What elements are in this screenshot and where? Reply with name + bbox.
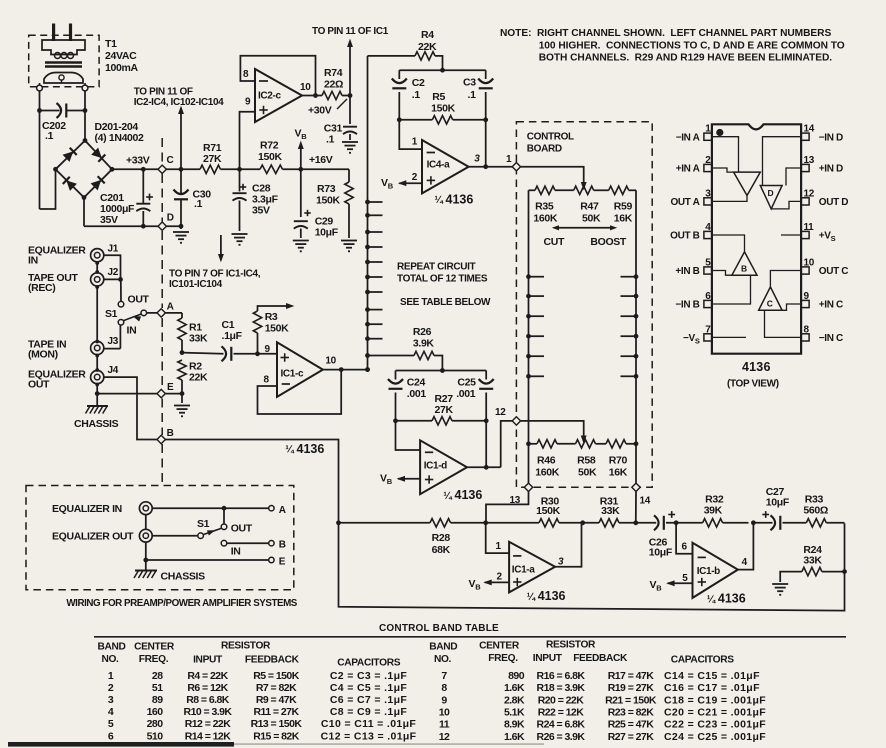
svg-text:R22 = 12K: R22 = 12K <box>538 706 585 718</box>
svg-text:8: 8 <box>264 375 270 386</box>
svg-text:C2: C2 <box>412 77 425 89</box>
svg-text:.1: .1 <box>326 134 335 146</box>
svg-text:10: 10 <box>439 706 450 718</box>
svg-text:R18 = 3.9K: R18 = 3.9K <box>537 682 586 694</box>
svg-text:R24 = 6.8K: R24 = 6.8K <box>537 719 586 731</box>
svg-text:.1: .1 <box>194 198 203 210</box>
svg-text:C18 = C19 = .001μF: C18 = C19 = .001μF <box>664 694 766 706</box>
svg-text:R17 = 47K: R17 = 47K <box>608 670 655 682</box>
svg-text:S1: S1 <box>197 518 210 530</box>
svg-text:C6 = C7 = .1μF: C6 = C7 = .1μF <box>330 694 408 706</box>
svg-text:35V: 35V <box>100 214 118 226</box>
svg-text:R35: R35 <box>535 201 554 213</box>
svg-text:1: 1 <box>108 670 114 682</box>
svg-text:4: 4 <box>742 557 748 568</box>
svg-text:BOOST: BOOST <box>590 236 627 248</box>
svg-text:160K: 160K <box>533 213 557 225</box>
svg-text:EQUALIZER OUT: EQUALIZER OUT <box>52 531 134 543</box>
svg-text:R28: R28 <box>432 532 451 544</box>
svg-text:B: B <box>167 428 174 439</box>
svg-text:C16 = C17 = .01μF: C16 = C17 = .01μF <box>664 682 760 694</box>
svg-text:16K: 16K <box>609 467 628 479</box>
svg-text:TO PIN 11 OF IC1: TO PIN 11 OF IC1 <box>312 26 389 37</box>
svg-text:27K: 27K <box>435 404 454 416</box>
svg-text:REPEAT CIRCUIT: REPEAT CIRCUIT <box>397 262 475 273</box>
svg-text:12: 12 <box>495 407 506 418</box>
svg-text:A: A <box>279 505 286 516</box>
svg-text:7: 7 <box>441 670 447 682</box>
svg-text:R6 = 12K: R6 = 12K <box>187 682 228 694</box>
svg-text:C4 = C5 = .1μF: C4 = C5 = .1μF <box>330 682 408 694</box>
svg-text:RESISTOR: RESISTOR <box>546 640 596 651</box>
svg-text:BAND: BAND <box>429 642 457 653</box>
svg-text:4136: 4136 <box>446 192 474 206</box>
svg-text:R13 = 150K: R13 = 150K <box>251 718 303 730</box>
svg-text:68K: 68K <box>432 544 451 556</box>
svg-text:R70: R70 <box>609 455 628 467</box>
svg-text:22Ω: 22Ω <box>324 79 343 91</box>
svg-text:24VAC: 24VAC <box>105 50 137 62</box>
svg-text:NO.: NO. <box>434 654 452 665</box>
svg-text:R14 = 12K: R14 = 12K <box>185 730 232 742</box>
svg-text:1: 1 <box>506 154 512 165</box>
svg-text:CENTER: CENTER <box>479 641 520 652</box>
svg-text:OUT: OUT <box>231 523 253 535</box>
svg-text:R11 = 27K: R11 = 27K <box>254 706 300 718</box>
svg-text:R12 = 22K: R12 = 22K <box>185 718 232 730</box>
svg-text:.1: .1 <box>412 89 421 101</box>
svg-text:4136: 4136 <box>455 488 483 502</box>
svg-text:J4: J4 <box>108 365 119 376</box>
svg-text:14: 14 <box>804 124 815 135</box>
svg-text:10: 10 <box>300 82 311 93</box>
svg-text:4: 4 <box>108 706 114 718</box>
svg-text:R5 = 150K: R5 = 150K <box>253 670 300 682</box>
svg-text:510: 510 <box>147 730 164 742</box>
svg-text:10: 10 <box>804 258 815 269</box>
svg-text:IC2-c: IC2-c <box>258 91 281 102</box>
svg-text:(REC): (REC) <box>28 282 55 294</box>
svg-text:2: 2 <box>705 155 711 166</box>
svg-text:TO PIN 11 OF: TO PIN 11 OF <box>134 87 193 98</box>
svg-text:C12 = C13 = .01μF: C12 = C13 = .01μF <box>321 730 417 742</box>
svg-text:6: 6 <box>682 542 688 553</box>
svg-text:FREQ.: FREQ. <box>488 653 518 664</box>
svg-text:EQUALIZER IN: EQUALIZER IN <box>52 503 122 515</box>
svg-text:IN: IN <box>127 325 137 337</box>
svg-text:CAPACITORS: CAPACITORS <box>337 657 400 668</box>
svg-text:−IN A: −IN A <box>676 132 700 143</box>
svg-text:4136: 4136 <box>718 592 746 606</box>
svg-text:R15 = 82K: R15 = 82K <box>253 730 300 742</box>
svg-text:IN: IN <box>28 255 38 267</box>
svg-text:160: 160 <box>147 706 164 718</box>
svg-text:22K: 22K <box>189 372 208 384</box>
svg-text:CHASSIS: CHASSIS <box>74 418 119 430</box>
svg-text:¼: ¼ <box>707 594 716 605</box>
svg-text:R20 = 22K: R20 = 22K <box>538 694 585 706</box>
svg-text:2: 2 <box>497 572 503 583</box>
svg-text:CUT: CUT <box>544 236 565 248</box>
svg-text:−IN C: −IN C <box>819 333 843 344</box>
svg-text:8: 8 <box>804 324 810 335</box>
svg-text:RESISTOR: RESISTOR <box>221 641 271 652</box>
svg-text:R21 = 150K: R21 = 150K <box>605 694 657 706</box>
svg-text:IC1-a: IC1-a <box>512 565 535 576</box>
svg-text:150K: 150K <box>316 195 340 207</box>
svg-text:2.8K: 2.8K <box>504 694 525 706</box>
svg-text:CENTER: CENTER <box>134 642 175 653</box>
svg-text:A: A <box>167 302 174 313</box>
svg-text:3: 3 <box>474 154 480 165</box>
svg-text:IC1-b: IC1-b <box>697 566 720 577</box>
svg-text:8: 8 <box>243 69 249 80</box>
svg-text:C: C <box>167 155 174 166</box>
svg-text:R7 = 82K: R7 = 82K <box>256 682 297 694</box>
svg-text:R5: R5 <box>432 91 445 103</box>
svg-text:B: B <box>741 264 747 274</box>
svg-text:R74: R74 <box>324 67 343 79</box>
svg-text:SEE TABLE BELOW: SEE TABLE BELOW <box>400 297 491 308</box>
svg-text:CHASSIS: CHASSIS <box>161 571 206 583</box>
svg-text:1: 1 <box>496 541 502 552</box>
svg-text:R58: R58 <box>577 455 596 467</box>
svg-text:(MON): (MON) <box>28 349 58 361</box>
svg-text:C20 = C21 = .001μF: C20 = C21 = .001μF <box>664 706 766 718</box>
svg-text:8: 8 <box>441 682 447 694</box>
svg-text:OUT: OUT <box>28 379 50 391</box>
svg-text:C24: C24 <box>407 377 426 389</box>
svg-text:27K: 27K <box>203 153 222 165</box>
svg-text:C14 = C15 = .01μF: C14 = C15 = .01μF <box>664 670 760 682</box>
svg-text:50K: 50K <box>582 213 601 225</box>
svg-text:.001: .001 <box>456 388 476 400</box>
svg-text:3: 3 <box>705 188 711 199</box>
svg-text:OUT B: OUT B <box>670 231 699 242</box>
svg-text:R73: R73 <box>317 183 336 195</box>
svg-text:150K: 150K <box>265 323 289 335</box>
svg-text:TOTAL OF 12 TIMES: TOTAL OF 12 TIMES <box>397 273 488 284</box>
svg-text:R19 = 27K: R19 = 27K <box>608 682 655 694</box>
svg-text:100mA: 100mA <box>105 62 138 74</box>
svg-text:IC2-IC4, IC102-IC104: IC2-IC4, IC102-IC104 <box>134 97 224 108</box>
svg-text:C10 = C11 = .01μF: C10 = C11 = .01μF <box>321 718 416 730</box>
svg-text:22K: 22K <box>418 41 437 53</box>
svg-text:C: C <box>767 299 773 309</box>
svg-text:C2 = C3 = .1μF: C2 = C3 = .1μF <box>330 670 408 682</box>
svg-text:4136: 4136 <box>297 442 325 456</box>
svg-text:9: 9 <box>804 291 810 302</box>
svg-text:−IN D: −IN D <box>819 132 843 143</box>
svg-text:CONTROL BAND TABLE: CONTROL BAND TABLE <box>379 623 499 634</box>
svg-text:R23 = 82K: R23 = 82K <box>608 706 655 718</box>
svg-text:OUT A: OUT A <box>671 197 700 208</box>
svg-text:IC4-a: IC4-a <box>427 160 450 171</box>
svg-text:39K: 39K <box>704 505 723 517</box>
svg-text:D: D <box>768 188 774 198</box>
svg-text:6: 6 <box>705 291 711 302</box>
svg-text:8.9K: 8.9K <box>504 719 525 731</box>
svg-text:280: 280 <box>147 718 164 730</box>
svg-text:+33V: +33V <box>126 155 150 167</box>
svg-text:.1: .1 <box>468 89 477 101</box>
svg-text:INPUT: INPUT <box>533 653 563 664</box>
svg-text:R26: R26 <box>413 326 432 338</box>
svg-text:.1μF: .1μF <box>222 330 243 342</box>
svg-text:OUT C: OUT C <box>819 266 848 277</box>
svg-text:NO.: NO. <box>101 654 119 665</box>
svg-text:150K: 150K <box>258 151 282 163</box>
svg-text:C22 = C23 = .001μF: C22 = C23 = .001μF <box>664 719 766 731</box>
svg-text:R27 = 27K: R27 = 27K <box>608 731 655 743</box>
svg-text:BOTH CHANNELS. R29 AND R129 H: BOTH CHANNELS. R29 AND R129 HAVE BEEN EL… <box>539 53 833 64</box>
svg-text:+IN C: +IN C <box>819 300 843 311</box>
svg-text:CAPACITORS: CAPACITORS <box>671 654 734 665</box>
svg-text:R10 = 3.9K: R10 = 3.9K <box>184 706 233 718</box>
svg-text:+16V: +16V <box>309 154 333 166</box>
svg-text:B: B <box>279 540 286 551</box>
svg-text:10μF: 10μF <box>766 497 790 509</box>
svg-text:R25 = 47K: R25 = 47K <box>608 719 655 731</box>
svg-text:33K: 33K <box>601 505 620 517</box>
svg-text:R8 = 6.8K: R8 = 6.8K <box>186 694 230 706</box>
svg-text:+IN B: +IN B <box>675 266 699 277</box>
svg-text:+30V: +30V <box>308 105 332 117</box>
svg-text:3.9K: 3.9K <box>413 338 435 350</box>
svg-text:11: 11 <box>439 719 450 731</box>
svg-text:OUT D: OUT D <box>819 197 848 208</box>
svg-text:INPUT: INPUT <box>193 654 223 665</box>
svg-text:IN: IN <box>231 546 241 558</box>
svg-text:35V: 35V <box>252 205 270 217</box>
svg-text:9: 9 <box>441 694 447 706</box>
svg-text:4136: 4136 <box>538 589 566 603</box>
svg-text:150K: 150K <box>431 103 455 115</box>
svg-text:¼: ¼ <box>285 445 294 456</box>
svg-text:100 HIGHER. CONNECTIONS TO C,: 100 HIGHER. CONNECTIONS TO C, D AND E AR… <box>539 40 845 51</box>
svg-text:J2: J2 <box>108 267 119 278</box>
svg-text:89: 89 <box>152 694 163 706</box>
svg-text:FREQ.: FREQ. <box>139 654 169 665</box>
svg-text:2: 2 <box>412 172 418 183</box>
svg-text:150K: 150K <box>536 505 560 517</box>
svg-text:C8 = C9 = .1μF: C8 = C9 = .1μF <box>330 706 408 718</box>
svg-text:J3: J3 <box>108 336 119 347</box>
svg-text:33K: 33K <box>189 333 208 345</box>
svg-text:IC1-d: IC1-d <box>424 461 447 472</box>
svg-text:C25: C25 <box>457 377 476 389</box>
svg-text:T1: T1 <box>105 38 117 50</box>
svg-text:¼: ¼ <box>443 491 452 502</box>
svg-text:S1: S1 <box>105 308 118 320</box>
svg-text:12: 12 <box>804 188 815 199</box>
svg-text:51: 51 <box>152 682 163 694</box>
svg-text:33K: 33K <box>803 555 822 567</box>
svg-text:FEEDBACK: FEEDBACK <box>245 654 300 665</box>
svg-text:J1: J1 <box>108 244 119 255</box>
svg-text:10μF: 10μF <box>649 546 673 558</box>
svg-text:C3: C3 <box>463 77 476 89</box>
svg-text:R16 = 6.8K: R16 = 6.8K <box>537 670 586 682</box>
svg-text:BAND: BAND <box>97 642 125 653</box>
svg-text:¼: ¼ <box>435 195 444 206</box>
svg-text:R72: R72 <box>260 140 279 152</box>
svg-text:50K: 50K <box>578 467 597 479</box>
svg-text:+IN A: +IN A <box>676 164 700 175</box>
svg-text:R4 = 22K: R4 = 22K <box>187 670 228 682</box>
svg-text:9: 9 <box>265 344 271 355</box>
svg-text:R47: R47 <box>580 201 599 213</box>
svg-text:890: 890 <box>508 670 525 682</box>
svg-text:(4) 1N4002: (4) 1N4002 <box>95 132 145 144</box>
svg-text:4136: 4136 <box>742 360 771 374</box>
svg-text:2: 2 <box>108 682 114 694</box>
svg-text:1.6K: 1.6K <box>504 682 525 694</box>
svg-text:R46: R46 <box>537 455 556 467</box>
svg-text:11: 11 <box>804 222 815 233</box>
svg-text:1.6K: 1.6K <box>504 731 525 743</box>
svg-text:CONTROL: CONTROL <box>527 132 574 143</box>
svg-text:5.1K: 5.1K <box>504 706 525 718</box>
svg-text:6: 6 <box>108 730 114 742</box>
svg-text:5: 5 <box>682 573 688 584</box>
svg-text:10: 10 <box>325 356 336 367</box>
svg-text:(TOP VIEW): (TOP VIEW) <box>727 379 779 390</box>
svg-text:E: E <box>279 556 286 567</box>
svg-text:IC1-c: IC1-c <box>281 368 304 379</box>
svg-text:3: 3 <box>558 557 564 568</box>
svg-text:14: 14 <box>640 496 651 507</box>
svg-text:WIRING FOR PREAMP/POWER AMPLIF: WIRING FOR PREAMP/POWER AMPLIFIER SYSTEM… <box>66 598 297 609</box>
svg-text:R4: R4 <box>421 29 434 41</box>
svg-text:1: 1 <box>412 137 418 148</box>
svg-text:13: 13 <box>804 155 815 166</box>
svg-text:16K: 16K <box>614 213 633 225</box>
svg-text:9: 9 <box>245 97 251 108</box>
svg-text:BOARD: BOARD <box>527 144 562 155</box>
svg-text:E: E <box>167 382 174 393</box>
svg-text:1: 1 <box>705 124 711 135</box>
svg-text:TO PIN 7 OF IC1-IC4,: TO PIN 7 OF IC1-IC4, <box>169 269 261 280</box>
svg-text:5: 5 <box>108 718 114 730</box>
svg-text:R59: R59 <box>614 201 633 213</box>
svg-text:NOTE: RIGHT CHANNEL SHOWN. L: NOTE: RIGHT CHANNEL SHOWN. LEFT CHANNEL … <box>500 28 831 39</box>
svg-text:+IN D: +IN D <box>819 164 843 175</box>
svg-text:−IN B: −IN B <box>675 300 699 311</box>
svg-text:FEEDBACK: FEEDBACK <box>573 653 628 664</box>
svg-text:28: 28 <box>152 670 163 682</box>
svg-text:R9 = 47K: R9 = 47K <box>256 694 297 706</box>
svg-text:R3: R3 <box>265 311 278 323</box>
svg-text:IC101-IC104: IC101-IC104 <box>169 279 223 290</box>
svg-text:7: 7 <box>705 324 711 335</box>
svg-text:OUT: OUT <box>128 294 150 306</box>
svg-text:C24 = C25 = .001μF: C24 = C25 = .001μF <box>664 731 766 743</box>
svg-text:10μF: 10μF <box>315 227 339 239</box>
svg-text:¼: ¼ <box>527 592 536 603</box>
svg-text:R26 = 3.9K: R26 = 3.9K <box>537 731 586 743</box>
svg-text:D: D <box>167 213 174 224</box>
svg-text:12: 12 <box>439 731 450 743</box>
svg-text:.001: .001 <box>407 388 427 400</box>
svg-text:160K: 160K <box>535 467 559 479</box>
svg-text:560Ω: 560Ω <box>803 505 828 517</box>
svg-text:5: 5 <box>705 258 711 269</box>
svg-text:4: 4 <box>705 222 711 233</box>
svg-text:.1: .1 <box>45 130 54 142</box>
svg-text:3: 3 <box>108 694 114 706</box>
